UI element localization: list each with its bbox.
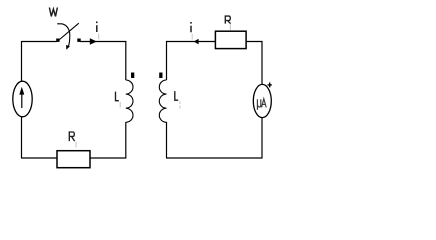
wire: left loop top-right segment xyxy=(80,41,126,43)
wire: left loop bottom-right segment xyxy=(90,157,126,159)
label L1 xyxy=(116,92,121,108)
inductor L2 xyxy=(159,80,166,122)
resistor R2 xyxy=(215,31,246,48)
switch W left terminal xyxy=(56,39,59,42)
wire: left loop left vertical upper xyxy=(21,41,23,82)
wire: left loop right vertical lower xyxy=(125,122,127,158)
switch W arc arrowhead xyxy=(66,45,70,50)
switch W closing arc xyxy=(57,24,70,46)
wire: left loop top-left segment xyxy=(22,41,57,43)
polarity dot of L1 xyxy=(131,73,134,79)
wire: right loop right vertical upper xyxy=(261,41,263,85)
switch W blade xyxy=(60,23,79,39)
wire: right loop top-left segment xyxy=(166,41,216,43)
current source xyxy=(13,81,32,117)
label L2 xyxy=(175,91,180,109)
wire: right loop right vertical lower xyxy=(261,117,263,158)
resistor R1 xyxy=(57,151,90,168)
plus polarity mark xyxy=(268,83,272,88)
wire: right loop top-right segment xyxy=(246,41,263,43)
label W xyxy=(49,8,57,17)
switch W right terminal xyxy=(77,39,80,42)
wire: left loop bottom-left segment xyxy=(21,157,58,159)
label R1 xyxy=(69,132,76,147)
meter microammeter xyxy=(253,84,271,117)
label R2 xyxy=(225,16,230,30)
wire: left loop right vertical upper xyxy=(125,41,127,80)
label i1 xyxy=(96,22,99,40)
label i2 xyxy=(190,22,192,40)
wire: right loop left vertical upper xyxy=(166,41,168,80)
wire: right loop bottom segment xyxy=(166,157,263,159)
current arrow i2 xyxy=(194,39,199,45)
current arrow i1 xyxy=(90,38,97,45)
wire: left loop left vertical lower xyxy=(21,117,23,159)
inductor L1 xyxy=(126,80,133,122)
wire: right loop left vertical lower xyxy=(166,122,168,158)
polarity dot of L2 xyxy=(159,73,162,79)
